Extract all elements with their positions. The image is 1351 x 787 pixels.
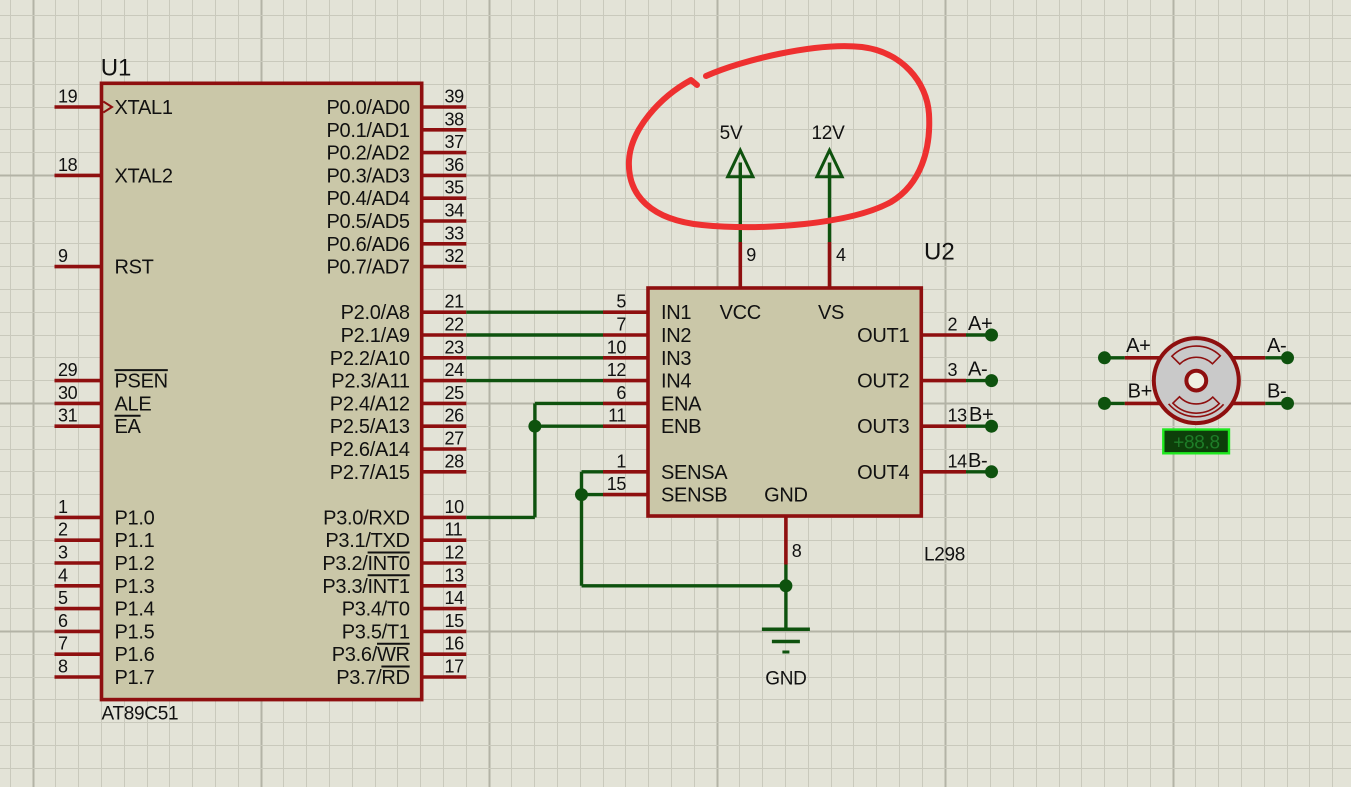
svg-text:SENSA: SENSA	[661, 462, 728, 484]
annotation red circle	[629, 46, 929, 227]
svg-text:35: 35	[445, 178, 465, 198]
pin 26 P2.5/A13 (U1 right)	[422, 424, 467, 428]
svg-text:ENB: ENB	[661, 416, 701, 438]
svg-text:11: 11	[445, 520, 463, 540]
svg-text:P0.1/AD1: P0.1/AD1	[326, 120, 409, 142]
pin 27 P2.6/A14 (U1 right)	[422, 447, 467, 451]
svg-text:8: 8	[58, 657, 68, 677]
svg-text:18: 18	[58, 155, 78, 175]
svg-text:P3.2/INT0: P3.2/INT0	[322, 553, 410, 575]
svg-text:B+: B+	[1128, 380, 1152, 402]
pin 11 P3.1/TXD (U1 right)	[422, 538, 467, 542]
svg-text:P1.7: P1.7	[115, 667, 155, 689]
pin 21 P2.0/A8 (U1 right)	[422, 310, 467, 314]
svg-text:P0.4/AD4: P0.4/AD4	[326, 188, 409, 210]
wire GND net vertical	[784, 565, 787, 630]
svg-text:U1: U1	[101, 54, 132, 81]
svg-text:P1.0: P1.0	[115, 507, 155, 529]
svg-text:P1.2: P1.2	[115, 553, 155, 575]
svg-text:+88.8: +88.8	[1173, 433, 1220, 454]
svg-text:27: 27	[445, 429, 465, 449]
svg-text:P3.1/TXD: P3.1/TXD	[325, 530, 409, 552]
svg-text:AT89C51: AT89C51	[102, 704, 179, 725]
svg-text:11: 11	[608, 406, 626, 426]
svg-text:IN4: IN4	[661, 371, 691, 393]
pin 25 P2.4/A12 (U1 right)	[422, 402, 467, 406]
pin 5 IN1 (U2 left)	[603, 310, 648, 314]
svg-text:30: 30	[58, 383, 78, 403]
svg-text:P3.0/RXD: P3.0/RXD	[323, 507, 410, 529]
svg-text:P3.7/RD: P3.7/RD	[336, 667, 410, 689]
motor terminal B+	[1105, 402, 1125, 405]
pin 15 P3.5/T1 (U1 right)	[422, 630, 467, 634]
pin 8 P1.7 (U1 left)	[55, 675, 102, 679]
pin 11 ENB (U2 left)	[603, 424, 648, 428]
motor terminal A+	[1105, 356, 1125, 359]
pin 12 P3.2/INT0 (U1 right)	[422, 561, 467, 565]
svg-text:15: 15	[445, 611, 465, 631]
svg-text:P3.3/INT1: P3.3/INT1	[322, 576, 410, 598]
svg-text:P0.7/AD7: P0.7/AD7	[326, 257, 409, 279]
svg-text:24: 24	[445, 360, 465, 380]
pin 8 GND (U2 bottom)	[784, 516, 788, 565]
svg-text:P0.0/AD0: P0.0/AD0	[326, 97, 409, 119]
svg-text:32: 32	[445, 246, 465, 266]
pin 35 P0.4/AD4 (U1 right)	[422, 196, 467, 200]
svg-text:RST: RST	[115, 257, 154, 279]
wire P2.3 to IN4	[466, 379, 603, 382]
pin 32 P0.7/AD7 (U1 right)	[422, 265, 467, 269]
svg-text:1: 1	[58, 497, 68, 517]
svg-text:SENSB: SENSB	[661, 485, 727, 507]
svg-text:4: 4	[58, 565, 68, 585]
svg-text:5: 5	[58, 588, 68, 608]
ground symbol	[762, 628, 810, 632]
svg-text:A-: A-	[1267, 335, 1286, 357]
svg-text:P2.7/A15: P2.7/A15	[330, 462, 410, 484]
svg-text:P2.6/A14: P2.6/A14	[330, 439, 410, 461]
svg-text:37: 37	[445, 132, 465, 152]
svg-text:U2: U2	[924, 239, 955, 266]
wire branch to ENB	[535, 425, 603, 428]
svg-text:23: 23	[445, 337, 465, 357]
svg-text:1: 1	[616, 451, 626, 471]
svg-text:OUT4: OUT4	[857, 462, 909, 484]
pin 22 P2.1/A9 (U1 right)	[422, 333, 467, 337]
svg-text:14: 14	[948, 451, 968, 471]
svg-text:14: 14	[445, 588, 465, 608]
pin 13 OUT3 (U2 right)	[921, 424, 966, 428]
pin 33 P0.6/AD6 (U1 right)	[422, 242, 467, 246]
svg-text:34: 34	[445, 201, 465, 221]
terminal B+ on OUT	[966, 425, 992, 428]
pin 24 P2.3/A11 (U1 right)	[422, 379, 467, 383]
motor terminal A-	[1231, 356, 1265, 360]
svg-text:2: 2	[58, 520, 68, 540]
svg-text:B-: B-	[1267, 380, 1286, 402]
pin 14 OUT4 (U2 right)	[921, 470, 966, 474]
svg-text:12V: 12V	[812, 123, 846, 144]
pin 39 P0.0/AD0 (U1 right)	[422, 105, 467, 109]
motor terminal B-	[1231, 402, 1265, 406]
svg-text:OUT3: OUT3	[857, 416, 909, 438]
svg-text:P0.2/AD2: P0.2/AD2	[326, 143, 409, 165]
junction GND	[779, 579, 792, 592]
pin 12 IN4 (U2 left)	[603, 379, 648, 383]
pin 7 IN2 (U2 left)	[603, 333, 648, 337]
svg-text:6: 6	[58, 611, 68, 631]
pin 15 SENSB (U2 left)	[603, 493, 648, 497]
pin 16 P3.6/WR (U1 right)	[422, 652, 467, 656]
pin 2 P1.1 (U1 left)	[55, 538, 102, 542]
terminal A- on OUT	[966, 379, 992, 382]
pin 28 P2.7/A15 (U1 right)	[422, 470, 467, 474]
pin 18 XTAL2 (U1 left)	[55, 174, 102, 178]
svg-text:P1.6: P1.6	[115, 644, 155, 666]
microcontroller U1 body	[102, 83, 422, 699]
svg-text:10: 10	[607, 337, 627, 357]
power 12V arrow	[817, 150, 842, 177]
svg-text:VS: VS	[818, 302, 844, 324]
svg-text:2: 2	[948, 315, 958, 335]
svg-text:13: 13	[445, 565, 465, 585]
svg-text:IN3: IN3	[661, 348, 691, 370]
junction SENSB	[575, 488, 588, 501]
svg-text:XTAL1: XTAL1	[115, 97, 173, 119]
svg-text:P0.6/AD6: P0.6/AD6	[326, 234, 409, 256]
svg-text:38: 38	[445, 109, 465, 129]
svg-text:36: 36	[445, 155, 465, 175]
svg-text:3: 3	[58, 543, 68, 563]
svg-text:7: 7	[58, 634, 68, 654]
svg-text:25: 25	[445, 383, 465, 403]
svg-text:P1.5: P1.5	[115, 621, 155, 643]
svg-text:4: 4	[836, 245, 846, 265]
svg-text:XTAL2: XTAL2	[115, 165, 173, 187]
pin 2 OUT1 (U2 right)	[921, 333, 966, 337]
svg-text:31: 31	[58, 406, 78, 426]
pin 19 XTAL1 (U1 left)	[55, 105, 102, 109]
svg-text:17: 17	[445, 657, 465, 677]
stepper motor body	[1154, 338, 1239, 423]
wire P2.2 to IN3	[466, 356, 603, 359]
pin 29 PSEN (U1 left)	[55, 379, 102, 383]
junction ENA/ENB	[528, 420, 541, 433]
svg-text:5: 5	[616, 292, 626, 312]
svg-text:EA: EA	[115, 416, 142, 438]
pin 36 P0.3/AD3 (U1 right)	[422, 174, 467, 178]
pin 5 P1.4 (U1 left)	[55, 607, 102, 611]
svg-text:IN1: IN1	[661, 302, 691, 324]
pin 1 P1.0 (U1 left)	[55, 516, 102, 520]
svg-text:16: 16	[445, 634, 465, 654]
pin 3 OUT2 (U2 right)	[921, 379, 966, 383]
svg-text:P3.6/WR: P3.6/WR	[332, 644, 410, 666]
pin 6 P1.5 (U1 left)	[55, 630, 102, 634]
svg-text:7: 7	[616, 315, 626, 335]
pin 9 VCC (U2 top)	[738, 242, 742, 288]
svg-text:GND: GND	[765, 669, 806, 690]
pin 17 P3.7/RD (U1 right)	[422, 675, 467, 679]
svg-text:22: 22	[445, 315, 465, 335]
svg-text:5V: 5V	[720, 123, 743, 144]
svg-text:B+: B+	[969, 404, 993, 426]
svg-text:P3.4/T0: P3.4/T0	[342, 599, 410, 621]
pin 7 P1.6 (U1 left)	[55, 652, 102, 656]
pin 10 P3.0/RXD (U1 right)	[422, 516, 467, 520]
pin 38 P0.1/AD1 (U1 right)	[422, 128, 467, 132]
svg-text:A+: A+	[1126, 335, 1150, 357]
pin 1 SENSA (U2 left)	[603, 470, 648, 474]
svg-text:6: 6	[616, 383, 626, 403]
svg-text:P1.4: P1.4	[115, 599, 155, 621]
svg-text:13: 13	[948, 406, 968, 426]
svg-text:P1.1: P1.1	[115, 530, 155, 552]
svg-text:A+: A+	[968, 313, 992, 335]
svg-text:ENA: ENA	[661, 393, 702, 415]
svg-text:26: 26	[445, 406, 465, 426]
svg-text:P2.3/A11: P2.3/A11	[331, 371, 410, 393]
svg-text:B-: B-	[968, 450, 987, 472]
pin 13 P3.3/INT1 (U1 right)	[422, 584, 467, 588]
pin 10 IN3 (U2 left)	[603, 356, 648, 360]
pin 34 P0.5/AD5 (U1 right)	[422, 219, 467, 223]
svg-text:L298: L298	[924, 545, 965, 566]
svg-text:15: 15	[607, 474, 627, 494]
svg-text:VCC: VCC	[720, 302, 761, 324]
terminal A+ on OUT	[966, 333, 992, 336]
svg-text:12: 12	[607, 360, 627, 380]
motor driver U2 body	[648, 288, 921, 516]
svg-text:OUT2: OUT2	[857, 371, 909, 393]
svg-text:GND: GND	[764, 485, 808, 507]
svg-text:IN2: IN2	[661, 325, 691, 347]
svg-text:3: 3	[948, 360, 958, 380]
svg-text:P1.3: P1.3	[115, 576, 155, 598]
svg-text:39: 39	[445, 87, 465, 107]
svg-text:P2.1/A9: P2.1/A9	[341, 325, 410, 347]
svg-text:ALE: ALE	[115, 393, 152, 415]
svg-text:10: 10	[445, 497, 465, 517]
svg-text:12: 12	[445, 543, 465, 563]
pin 14 P3.4/T0 (U1 right)	[422, 607, 467, 611]
pin 4 P1.3 (U1 left)	[55, 584, 102, 588]
svg-text:A-: A-	[968, 359, 987, 381]
svg-text:21: 21	[445, 292, 465, 312]
pin 31 EA (U1 left)	[55, 424, 102, 428]
svg-text:PSEN: PSEN	[115, 371, 168, 393]
svg-text:19: 19	[58, 87, 78, 107]
wire SENSB stub	[582, 493, 604, 496]
power 5V arrow	[728, 150, 753, 177]
wire P2.1 to IN2	[466, 333, 603, 336]
terminal B- on OUT	[966, 470, 992, 473]
pin 9 RST (U1 left)	[55, 265, 102, 269]
svg-text:P2.4/A12: P2.4/A12	[330, 393, 410, 415]
wire P3.0/RXD run	[466, 516, 535, 519]
display +88.8	[1163, 430, 1229, 454]
pin 6 ENA (U2 left)	[603, 402, 648, 406]
svg-text:P2.2/A10: P2.2/A10	[330, 348, 410, 370]
wire SENSA run	[582, 470, 604, 473]
svg-text:8: 8	[792, 541, 802, 561]
pin 23 P2.2/A10 (U1 right)	[422, 356, 467, 360]
pin 3 P1.2 (U1 left)	[55, 561, 102, 565]
svg-text:9: 9	[746, 245, 756, 265]
svg-text:33: 33	[445, 223, 465, 243]
svg-text:28: 28	[445, 451, 465, 471]
pin 37 P0.2/AD2 (U1 right)	[422, 151, 467, 155]
pin 30 ALE (U1 left)	[55, 402, 102, 406]
svg-text:9: 9	[58, 246, 68, 266]
pin 4 VS (U2 top)	[828, 242, 832, 288]
svg-text:P0.5/AD5: P0.5/AD5	[326, 211, 409, 233]
svg-text:P2.5/A13: P2.5/A13	[330, 416, 410, 438]
svg-text:P3.5/T1: P3.5/T1	[342, 621, 410, 643]
svg-text:P2.0/A8: P2.0/A8	[341, 302, 410, 324]
svg-text:P0.3/AD3: P0.3/AD3	[326, 165, 409, 187]
svg-text:29: 29	[58, 360, 78, 380]
svg-text:OUT1: OUT1	[857, 325, 909, 347]
wire P2.0 to IN1	[466, 311, 603, 314]
